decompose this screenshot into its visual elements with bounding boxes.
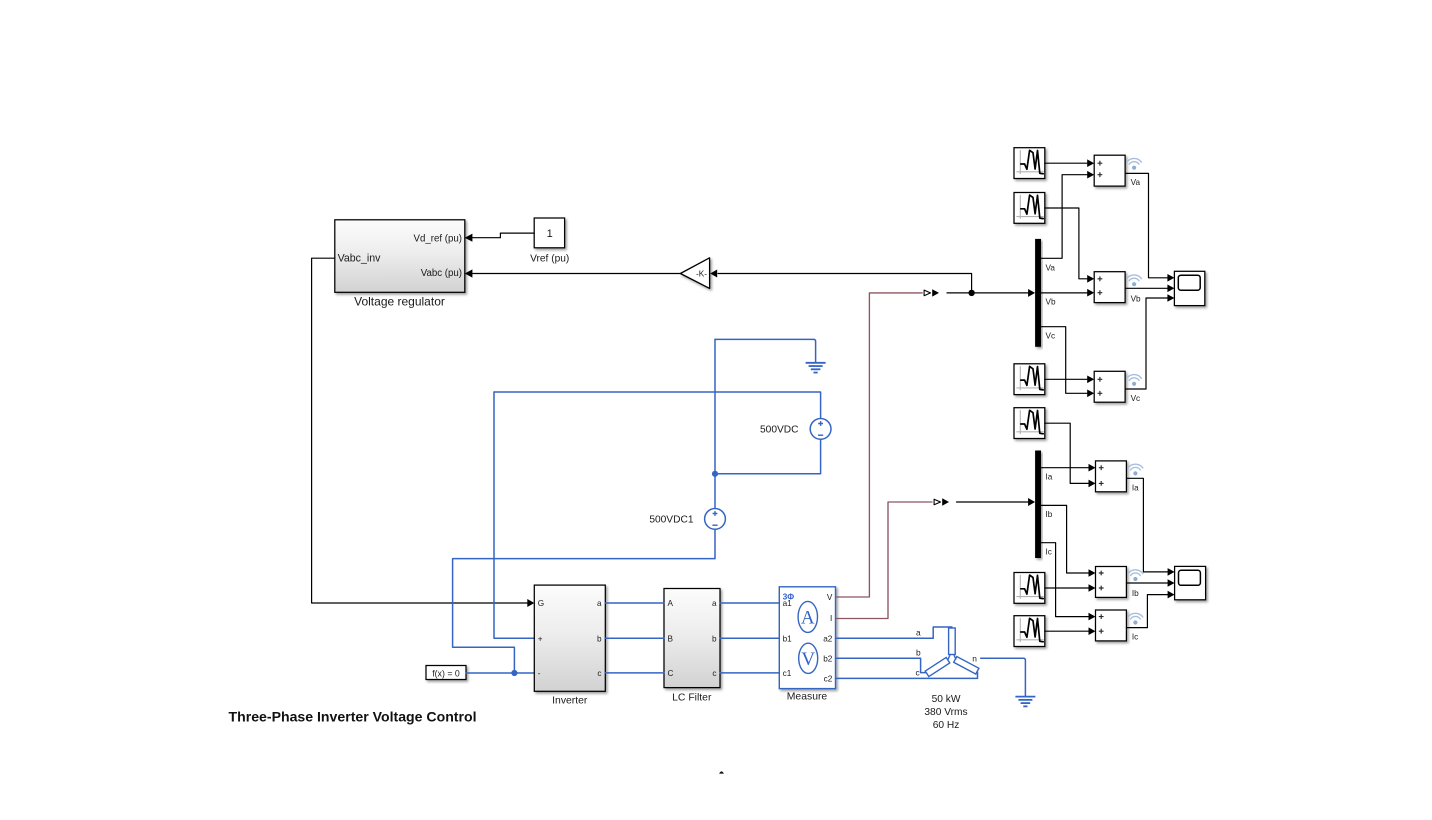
svg-text:V: V [827,593,833,602]
wire Ic spec to sum [1045,630,1090,632]
svg-text:A: A [801,608,815,629]
subsystem Inverter [534,585,605,691]
wireless icon Va [1127,158,1142,169]
port arrow Vabc [465,269,473,277]
wire solver to Inverter - [466,672,534,674]
sum block Ic [1096,610,1127,641]
svg-text:c: c [597,669,601,678]
svg-text:a1: a1 [783,599,793,608]
svg-text:b2: b2 [823,654,833,663]
wire Measure c2 to load c [836,672,978,678]
svg-text:b: b [597,634,602,643]
sum block Vb [1094,272,1125,303]
wire Measure a2 to load a [836,627,952,638]
wireless icon Ic [1128,613,1143,624]
solver block f(x)=0 [426,666,466,680]
svg-text:-K-: -K- [696,270,707,279]
wire positive rail to Inverter + [494,392,534,638]
subsystem LC Filter [664,589,720,688]
wire sum Vc to scope [1125,298,1168,389]
wire LC c to Measure c1 [720,672,779,674]
DC voltage source 500VDC1 [705,509,726,530]
port arrow gain input [710,270,717,278]
svg-text:Ic: Ic [1046,548,1052,557]
ground G2 [1015,697,1035,707]
load resistor branch A [949,628,956,655]
wire sum Ia to scope [1126,478,1168,572]
svg-text:c1: c1 [783,669,792,678]
demux currents [1035,451,1041,559]
sum block Va [1094,155,1125,186]
node V junction [968,290,974,296]
port arrow Vd_ref [465,234,473,242]
svg-text:Ia: Ia [1132,484,1139,493]
svg-text:Vabc_inv: Vabc_inv [338,253,381,265]
wire V measurement maroon [836,293,923,597]
svg-text:a: a [916,628,921,638]
sum block Vc [1094,371,1125,402]
svg-text:I: I [830,614,832,623]
arrow demux1 input [1028,289,1035,297]
constant block 1 [534,218,564,248]
wireless icon Ib [1128,570,1143,581]
svg-text:b1: b1 [783,634,793,643]
wire Inverter b to LC B [605,637,664,639]
svg-text:Vb: Vb [1131,294,1141,303]
svg-text:c2: c2 [824,674,833,683]
load resistor branch B [925,657,950,676]
wire LC b to Measure b1 [720,637,779,639]
wire 500VDC1 bottom to Inverter - [453,529,715,673]
svg-text:C: C [668,669,674,678]
svg-text:Ia: Ia [1046,473,1053,482]
svg-text:Vc: Vc [1131,394,1141,403]
signal spec block Vc spec [1014,364,1045,395]
wire Ia spec to sum [1045,423,1090,483]
wire positive rail [494,392,821,418]
wire Vc spec to sum [1045,378,1089,380]
wire V measurement to gain input [718,274,972,293]
demux voltages [1035,239,1041,347]
svg-text:Vabc (pu): Vabc (pu) [421,268,462,279]
wire Measure b2 to load b [836,658,928,672]
wireless icon Ia [1128,464,1143,475]
wire 500VDC bottom to midpoint [715,440,821,474]
wire sum Va to scope [1125,173,1168,277]
signal spec block Va spec [1014,148,1045,179]
wire demux Ib to sum [1041,505,1090,573]
wire I measurement maroon [836,502,933,619]
svg-text:Measure: Measure [787,692,828,703]
svg-text:1: 1 [547,228,553,240]
wire Vref to Vd_ref [466,233,534,238]
svg-text:G: G [538,599,544,608]
wire demux Vc to sum [1041,327,1089,394]
svg-text:c: c [916,668,920,678]
sum block Ib [1096,567,1127,598]
svg-text:a2: a2 [823,634,833,643]
arrow demux2 input [1028,498,1035,506]
sum block Ia [1096,461,1127,492]
DC voltage source 500VDC [810,419,831,440]
wire demux Va to sum [1041,175,1089,259]
svg-text:Va: Va [1046,263,1056,272]
node DC midpoint [712,471,718,477]
svg-text:Vb: Vb [1046,298,1056,307]
wire Inverter c to LC C [605,672,664,674]
arrow I signal [942,498,949,505]
signal spec block Vb spec [1014,193,1045,224]
gain block -K- [680,258,709,289]
wire sum Ic to scope [1126,595,1168,628]
wire Ib spec to sum [1045,587,1090,589]
svg-text:Vref (pu): Vref (pu) [530,253,569,264]
subsystem Measure [779,587,835,689]
svg-text:500VDC: 500VDC [760,425,799,436]
annotation dot [720,772,723,773]
node solver junction [511,670,517,676]
wire demux Vb to sum [1041,292,1089,294]
signal spec block Ic spec [1014,616,1045,647]
svg-text:b: b [916,648,921,658]
svg-text:f(x) = 0: f(x) = 0 [432,668,460,678]
wire top rail to ground [715,338,814,340]
wire I to demux2 [957,501,1029,503]
port arrow G input [527,599,534,607]
wire load n to ground [980,658,1025,696]
wire DC midpoint vertical [714,339,716,508]
svg-text:60 Hz: 60 Hz [933,720,960,731]
svg-text:a: a [597,599,602,608]
svg-text:Three-Phase Inverter Voltage C: Three-Phase Inverter Voltage Control [229,708,477,724]
svg-text:500VDC1: 500VDC1 [649,515,694,526]
scope scope currents [1175,566,1206,599]
wire gain output to Vabc port [466,273,680,275]
svg-text:V: V [801,649,815,670]
svg-text:Ib: Ib [1132,589,1139,598]
arrow V signal [932,289,939,296]
svg-text:c: c [712,669,716,678]
svg-text:380 Vrms: 380 Vrms [924,707,967,718]
wire LC a to Measure a1 [720,602,779,604]
svg-text:a: a [712,599,717,608]
svg-text:Ic: Ic [1132,633,1138,642]
signal conversion I [934,499,940,505]
svg-text:Inverter: Inverter [552,696,588,707]
wireless icon Vc [1127,375,1142,386]
svg-text:Va: Va [1131,178,1141,187]
svg-text:Voltage regulator: Voltage regulator [354,295,445,309]
signal conversion V [924,290,930,296]
subsystem Voltage regulator [335,220,465,292]
wire Vb spec to sum [1045,208,1089,279]
svg-text:+: + [538,634,543,643]
wire Va spec to sum [1045,162,1089,164]
ground G1 [806,363,826,373]
svg-text:B: B [668,634,674,643]
load resistor branch C [954,657,979,675]
svg-text:n: n [972,653,977,663]
scope scope voltages [1174,271,1204,305]
signal spec block Ib spec [1014,573,1045,604]
wire demux Ia to sum [1041,467,1090,469]
svg-text:Vc: Vc [1046,332,1056,341]
wire Inverter a to LC A [605,602,664,604]
wire sum Ib to scope [1126,582,1168,584]
wire demux Ic to sum [1041,543,1090,617]
svg-text:-: - [538,669,541,678]
svg-text:b: b [712,634,717,643]
svg-text:50 kW: 50 kW [932,694,961,705]
svg-text:Ib: Ib [1046,510,1053,519]
svg-text:Vd_ref (pu): Vd_ref (pu) [414,233,462,244]
wire sum Vb to scope [1125,287,1168,289]
wire Vabc_inv to Inverter G [312,258,528,603]
load center junction [948,655,956,660]
wireless icon Vb [1127,275,1142,286]
svg-text:LC Filter: LC Filter [672,692,712,703]
signal spec block Ia spec [1014,408,1045,439]
wire V to demux1 [947,292,1029,294]
svg-text:A: A [668,599,674,608]
